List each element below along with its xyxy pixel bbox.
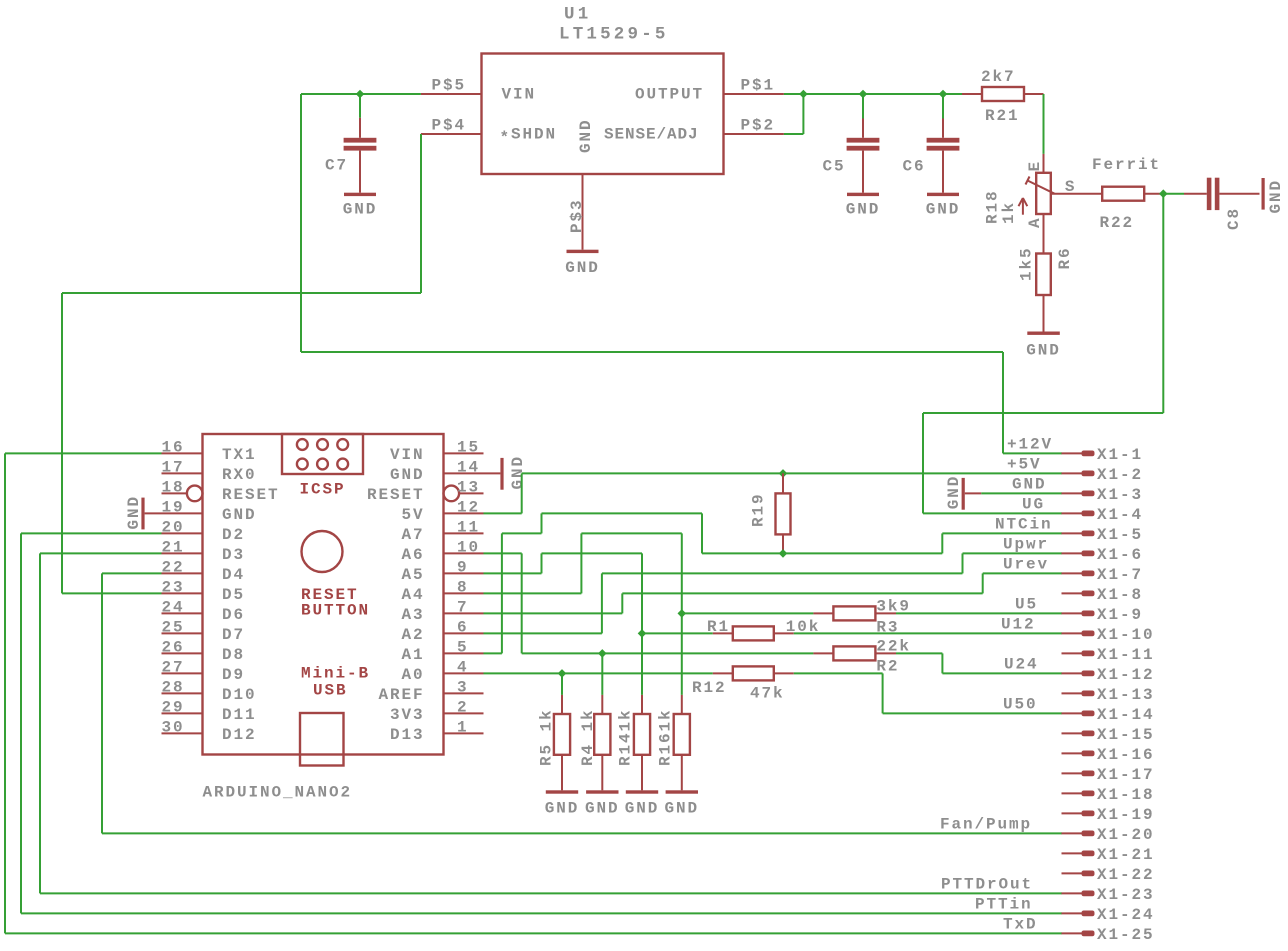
svg-text:A0: A0 — [401, 666, 424, 684]
wire OUTPUT net — [784, 93, 962, 95]
junction R3/R16 — [678, 609, 687, 618]
wire 5V pin jog — [484, 512, 522, 514]
svg-text:D7: D7 — [222, 626, 245, 644]
svg-text:C8: C8 — [1225, 207, 1243, 230]
connector pin X1-9 — [1062, 612, 1082, 614]
svg-text:GND: GND — [222, 506, 257, 524]
svg-text:X1-19: X1-19 — [1097, 806, 1155, 824]
svg-text:ARDUINO_NANO2: ARDUINO_NANO2 — [203, 784, 353, 802]
wire UG horizontal — [923, 412, 1163, 414]
resistor R6 — [1036, 254, 1051, 296]
pin 23 D5 stub — [162, 592, 203, 594]
wire A1 upper run — [542, 512, 703, 514]
svg-text:GND: GND — [565, 259, 600, 277]
R18 adjust arrow — [1022, 199, 1024, 215]
svg-text:A7: A7 — [401, 526, 424, 544]
wire A2 pin segment — [484, 632, 602, 634]
wire A6 drop — [521, 553, 523, 653]
IC U1 LT1529-5 body — [482, 54, 724, 175]
pin 13 RESET stub with bubble — [459, 492, 483, 494]
svg-text:GND: GND — [343, 201, 378, 219]
pin 27 D9 stub — [162, 672, 203, 674]
svg-text:2: 2 — [457, 699, 469, 717]
pin 19 GND stub — [162, 512, 203, 514]
svg-text:A6: A6 — [401, 546, 424, 564]
svg-text:16: 16 — [162, 439, 185, 457]
pin 7 A3 stub — [444, 612, 484, 614]
U1 pin P$3 (GND) stub — [582, 174, 584, 250]
svg-text:A: A — [1026, 216, 1044, 228]
svg-text:R18: R18 — [984, 189, 1002, 224]
wire A4 pin segment — [484, 592, 582, 594]
svg-text:U1: U1 — [564, 5, 591, 25]
svg-text:UG: UG — [1022, 496, 1045, 514]
svg-text:R19: R19 — [750, 492, 768, 527]
pin 28 D10 stub — [162, 692, 203, 694]
ground symbol at pin 14 — [500, 458, 503, 490]
connector pin X1-15 — [1062, 732, 1082, 734]
wire UG to X1-4 — [923, 512, 1062, 514]
svg-text:C5: C5 — [822, 158, 845, 176]
connector pin X1-19 — [1062, 812, 1082, 814]
svg-text:9: 9 — [457, 559, 469, 577]
svg-text:RESET: RESET — [222, 486, 280, 504]
svg-text:X1-20: X1-20 — [1097, 826, 1155, 844]
svg-text:R5 1k: R5 1k — [538, 708, 556, 766]
svg-text:R6: R6 — [1056, 246, 1074, 269]
connector pin X1-1 — [1062, 452, 1082, 454]
pin 17 RX0 stub — [162, 472, 203, 474]
U1 pin P$2 (SENSE) stub — [724, 133, 784, 135]
svg-text:10: 10 — [457, 539, 480, 557]
wire Upwr riser — [962, 553, 964, 573]
svg-text:A2: A2 — [401, 626, 424, 644]
svg-text:GND: GND — [945, 475, 963, 510]
svg-text:1k: 1k — [1000, 201, 1018, 224]
resistor R2 — [813, 652, 833, 654]
connector pin X1-14 — [1062, 712, 1082, 714]
svg-text:GND: GND — [665, 800, 700, 818]
pin 8 A4 stub — [444, 592, 484, 594]
pin 11 A7 stub — [444, 532, 484, 534]
svg-text:17: 17 — [162, 459, 185, 477]
svg-text:X1-24: X1-24 — [1097, 906, 1155, 924]
svg-text:R161k: R161k — [657, 708, 675, 766]
connector pin X1-22 — [1062, 872, 1082, 874]
pin 22 D4 stub — [162, 572, 203, 574]
wire R16 column — [681, 533, 683, 695]
wire A0 pin run — [484, 672, 713, 674]
svg-text:D11: D11 — [222, 706, 257, 724]
wire R2 to jog — [896, 652, 942, 654]
svg-text:19: 19 — [162, 499, 185, 517]
wire A5 riser — [541, 553, 543, 573]
svg-text:D13: D13 — [390, 726, 425, 744]
reset button circle — [302, 531, 343, 572]
svg-text:+12V: +12V — [1007, 436, 1053, 454]
pin 20 D2 stub — [162, 532, 203, 534]
svg-text:X1-5: X1-5 — [1097, 526, 1143, 544]
junction R19 bottom — [779, 549, 788, 558]
resistor R3 — [813, 612, 833, 614]
svg-text:R22: R22 — [1100, 214, 1135, 232]
pin 5 A1 stub — [444, 652, 484, 654]
junction at C6 — [939, 90, 948, 99]
wire PTTin bottom run — [21, 912, 1062, 914]
pin 18 RESET stub with bubble — [162, 492, 187, 494]
wire A3/Urev run — [622, 592, 982, 594]
svg-text:X1-25: X1-25 — [1097, 926, 1155, 944]
ground symbol below R16 — [666, 790, 698, 793]
svg-text:3: 3 — [457, 679, 469, 697]
pin 25 D7 stub — [162, 632, 203, 634]
wire A2/Upwr run — [602, 572, 963, 574]
svg-text:Urev: Urev — [1003, 556, 1049, 574]
connector pin X1-12 — [1062, 672, 1082, 674]
wire A2 riser — [601, 573, 603, 633]
svg-text:X1-6: X1-6 — [1097, 546, 1143, 564]
wire junction to R1 — [642, 632, 713, 634]
connector pin X1-3 — [1062, 492, 1082, 494]
resistor R12 — [713, 672, 733, 674]
svg-text:6: 6 — [457, 619, 469, 637]
svg-text:R141k: R141k — [617, 708, 635, 766]
ground symbol at pin 19 — [141, 498, 144, 530]
svg-text:X1-9: X1-9 — [1097, 606, 1143, 624]
svg-text:A1: A1 — [401, 646, 424, 664]
connector pin X1-2 — [1062, 472, 1082, 474]
resistor R14 (pulldown) — [641, 695, 643, 714]
svg-text:A3: A3 — [401, 606, 424, 624]
U1 pin P$5 (VIN) stub — [421, 93, 482, 95]
pin 29 D11 stub — [162, 712, 203, 714]
pin 10 A6 stub — [444, 552, 484, 554]
svg-text:LT1529-5: LT1529-5 — [559, 25, 669, 45]
wire junction to R3 — [682, 612, 814, 614]
wire FanPump bottom run — [102, 832, 1062, 834]
connector pin X1-17 — [1062, 772, 1082, 774]
svg-text:Ferrit: Ferrit — [1092, 156, 1161, 174]
svg-text:X1-3: X1-3 — [1097, 486, 1143, 504]
svg-text:GND: GND — [577, 118, 595, 153]
connector pin X1-5 — [1062, 532, 1082, 534]
wire Upwr to X1-6 — [963, 552, 1063, 554]
svg-text:Mini-B: Mini-B — [301, 665, 370, 683]
svg-text:Fan/Pump: Fan/Pump — [940, 816, 1032, 834]
svg-text:U5: U5 — [1015, 596, 1038, 614]
svg-text:NTCin: NTCin — [995, 516, 1053, 534]
ICSP pin circles — [297, 439, 308, 450]
svg-text:11: 11 — [457, 519, 480, 537]
svg-text:GND: GND — [125, 495, 143, 530]
svg-text:D5: D5 — [222, 586, 245, 604]
U1 pin P$1 (OUTPUT) stub — [724, 93, 784, 95]
ground symbol below C5 — [847, 193, 879, 196]
svg-text:X1-7: X1-7 — [1097, 566, 1143, 584]
junction R1/R14 — [638, 629, 647, 638]
svg-text:GND: GND — [926, 201, 961, 219]
svg-text:X1-13: X1-13 — [1097, 686, 1155, 704]
svg-text:RESET: RESET — [367, 486, 425, 504]
pin 9 A5 stub — [444, 572, 484, 574]
capacitor C6 — [942, 119, 944, 138]
junction R22/C8/UG — [1159, 189, 1168, 198]
USB connector outline — [300, 713, 344, 766]
svg-text:12: 12 — [457, 499, 480, 517]
svg-text:D8: D8 — [222, 646, 245, 664]
svg-text:R3: R3 — [876, 619, 899, 637]
connector pin X1-13 — [1062, 692, 1082, 694]
wire U12 to X1-10 — [794, 632, 1062, 634]
connector pin X1-10 — [1062, 632, 1082, 634]
svg-text:29: 29 — [162, 699, 185, 717]
svg-text:E: E — [1026, 160, 1044, 172]
svg-text:P$2: P$2 — [741, 116, 776, 134]
wire D5 to SHDN column — [62, 592, 162, 594]
pin 21 D3 stub — [162, 552, 203, 554]
wire SENSE riser — [802, 94, 804, 134]
svg-text:R12: R12 — [692, 679, 727, 697]
wire +12V down to X1-1 — [1002, 352, 1004, 453]
svg-text:GND: GND — [509, 455, 527, 490]
svg-text:X1-12: X1-12 — [1097, 666, 1155, 684]
connector pin X1-24 — [1062, 912, 1082, 914]
wire R14 column — [641, 553, 643, 695]
connector pin X1-7 — [1062, 572, 1082, 574]
ground symbol below R5 — [546, 790, 578, 793]
U1 pin P$4 (SHDN) stub — [421, 133, 482, 135]
wire NTC run — [702, 552, 942, 554]
pin 3 AREF stub — [444, 692, 484, 694]
wire junction to C8 — [1163, 193, 1184, 195]
resistor R4 (pulldown) — [601, 695, 603, 714]
wire D3/PTTDrOut column — [39, 553, 41, 893]
wire A6 pin segment — [484, 552, 522, 554]
resistor R16 (pulldown) — [681, 695, 683, 714]
wire Urev riser — [982, 573, 984, 593]
wire SHDN net down — [420, 134, 422, 293]
svg-text:47k: 47k — [750, 685, 785, 703]
svg-text:7: 7 — [457, 599, 469, 617]
svg-text:1k5: 1k5 — [1018, 246, 1036, 281]
wire C5 lead — [862, 94, 864, 119]
svg-text:GND: GND — [545, 800, 580, 818]
svg-text:R1: R1 — [707, 618, 730, 636]
svg-text:23: 23 — [162, 579, 185, 597]
wire D4 horizontal — [102, 572, 162, 574]
svg-text:A4: A4 — [401, 586, 424, 604]
ICSP header outline — [282, 434, 363, 474]
junction R4 top — [598, 649, 607, 658]
svg-text:U24: U24 — [1004, 656, 1039, 674]
potentiometer R18 body — [1043, 154, 1045, 173]
svg-text:C7: C7 — [325, 157, 348, 175]
wire R4 drop — [601, 653, 603, 695]
wire A1 pin segment — [484, 652, 502, 654]
svg-text:R4 1k: R4 1k — [579, 708, 597, 766]
wire VIN column down-left — [300, 94, 302, 352]
svg-text:GND: GND — [625, 800, 660, 818]
capacitor C5 — [862, 119, 864, 138]
svg-text:D6: D6 — [222, 606, 245, 624]
svg-text:X1-21: X1-21 — [1097, 846, 1155, 864]
wire R5 drop — [561, 673, 563, 695]
svg-text:R21: R21 — [985, 107, 1020, 125]
svg-text:P$5: P$5 — [431, 76, 466, 94]
connector pin X1-25 — [1062, 932, 1082, 934]
svg-text:U50: U50 — [1003, 696, 1038, 714]
pin 2 3V3 stub — [444, 712, 484, 714]
capacitor C8 — [1184, 193, 1207, 195]
wire NTCin riser — [941, 533, 943, 553]
svg-text:VIN: VIN — [390, 446, 425, 464]
svg-text:ICSP: ICSP — [300, 481, 346, 499]
wire A1 riser — [501, 533, 503, 653]
ground symbol right of C8 — [1262, 178, 1265, 210]
svg-text:AREF: AREF — [378, 686, 424, 704]
svg-text:1: 1 — [457, 719, 469, 737]
junction R5 top — [558, 669, 567, 678]
svg-text:22: 22 — [162, 559, 185, 577]
svg-text:3V3: 3V3 — [390, 706, 425, 724]
wire U50 to X1-14 — [883, 712, 1062, 714]
ground symbol at X1-3 — [962, 478, 965, 510]
svg-text:*SHDN: *SHDN — [500, 125, 558, 147]
svg-text:30: 30 — [162, 719, 185, 737]
svg-text:SENSE/ADJ: SENSE/ADJ — [604, 125, 699, 143]
wire VIN net top — [301, 93, 421, 95]
svg-text:15: 15 — [457, 439, 480, 457]
svg-text:27: 27 — [162, 659, 185, 677]
pin 24 D6 stub — [162, 612, 203, 614]
svg-text:GND: GND — [1012, 476, 1047, 494]
wire D4/FanPump column — [101, 573, 103, 833]
svg-text:X1-23: X1-23 — [1097, 886, 1155, 904]
svg-text:BUTTON: BUTTON — [301, 602, 370, 620]
svg-text:PTTDrOut: PTTDrOut — [941, 876, 1033, 894]
wire A3 riser — [621, 593, 623, 613]
wire C6 lead — [942, 94, 944, 119]
wire R21 to R18.E — [1043, 94, 1045, 154]
svg-text:GND: GND — [585, 800, 620, 818]
ground symbol below R4 — [586, 790, 618, 793]
svg-text:TX1: TX1 — [222, 446, 257, 464]
wire 5V riser — [521, 473, 523, 513]
svg-text:X1-8: X1-8 — [1097, 586, 1143, 604]
svg-text:X1-10: X1-10 — [1097, 626, 1155, 644]
svg-text:GND: GND — [1026, 342, 1061, 360]
wire UG down from junction — [1162, 194, 1164, 413]
wire A5 run — [542, 552, 643, 554]
wire U50 drop — [882, 673, 884, 713]
connector pin X1-16 — [1062, 752, 1082, 754]
svg-text:Upwr: Upwr — [1003, 536, 1049, 554]
junction at C7 top — [356, 90, 365, 99]
pin 1 D13 stub — [444, 732, 484, 734]
connector pin X1-11 — [1062, 652, 1082, 654]
svg-text:20: 20 — [162, 519, 185, 537]
svg-text:GND: GND — [1267, 179, 1285, 214]
connector pin X1-20 — [1062, 832, 1082, 834]
wire R18.S to R22 — [1051, 193, 1102, 195]
svg-text:18: 18 — [162, 479, 185, 497]
pin 26 D8 stub — [162, 652, 203, 654]
wire NTC drop — [701, 513, 703, 553]
wire GND to X1-3 — [981, 492, 1062, 494]
R18 wiper arrow diagonal — [1028, 181, 1055, 194]
svg-text:X1-11: X1-11 — [1097, 646, 1155, 664]
svg-text:X1-2: X1-2 — [1097, 466, 1143, 484]
ground symbol below R6 — [1027, 332, 1060, 335]
svg-text:D9: D9 — [222, 666, 245, 684]
svg-text:26: 26 — [162, 639, 185, 657]
svg-text:D10: D10 — [222, 686, 257, 704]
wire A5 pin segment — [484, 572, 542, 574]
connector pin X1-6 — [1062, 552, 1082, 554]
svg-text:GND: GND — [846, 201, 881, 219]
wire A6 lower run to R2 — [522, 652, 814, 654]
svg-text:A5: A5 — [401, 566, 424, 584]
resistor R5 (pulldown) — [561, 695, 563, 714]
svg-text:13: 13 — [457, 479, 480, 497]
svg-text:C6: C6 — [902, 158, 925, 176]
svg-text:P$1: P$1 — [741, 76, 776, 94]
capacitor C7 — [359, 118, 361, 138]
pin 16 TX1 stub — [162, 452, 203, 454]
svg-text:24: 24 — [162, 599, 185, 617]
wire NTCin to X1-5 — [942, 532, 1062, 534]
wire Urev to X1-7 — [983, 572, 1062, 574]
svg-text:VIN: VIN — [502, 86, 537, 104]
connector pin X1-4 — [1062, 512, 1082, 514]
junction OUTPUT/SENSE — [799, 90, 808, 99]
wire R12 to jog — [794, 672, 883, 674]
resistor R21 — [962, 93, 982, 95]
svg-text:GND: GND — [390, 466, 425, 484]
resistor R19 — [782, 473, 784, 493]
wire C7 lead (net part) — [359, 94, 361, 118]
resistor R22 (Ferrit) — [1102, 187, 1144, 201]
svg-text:OUTPUT: OUTPUT — [635, 86, 704, 104]
svg-text:X1-15: X1-15 — [1097, 726, 1155, 744]
svg-text:+5V: +5V — [1007, 456, 1042, 474]
connector pin X1-8 — [1062, 592, 1082, 594]
wire TX1 to TxD horizontal — [5, 452, 162, 454]
resistor R1 — [713, 632, 733, 634]
svg-text:X1-14: X1-14 — [1097, 706, 1155, 724]
svg-text:TxD: TxD — [1003, 916, 1038, 934]
wire TxD bottom run — [5, 932, 1062, 934]
svg-text:25: 25 — [162, 619, 185, 637]
wire A1 jog riser — [541, 513, 543, 533]
svg-text:28: 28 — [162, 679, 185, 697]
ground symbol below R14 — [626, 790, 658, 793]
wire A3 pin segment — [484, 612, 623, 614]
wire TxD left column — [4, 453, 6, 933]
svg-text:P$4: P$4 — [431, 116, 466, 134]
connector pin X1-18 — [1062, 792, 1082, 794]
svg-text:X1-1: X1-1 — [1097, 446, 1143, 464]
svg-text:21: 21 — [162, 539, 185, 557]
svg-text:X1-4: X1-4 — [1097, 506, 1143, 524]
svg-text:2k7: 2k7 — [981, 68, 1016, 86]
junction R19 top — [779, 469, 788, 478]
wire U5 to X1-9 — [896, 612, 1062, 614]
svg-text:D12: D12 — [222, 726, 257, 744]
IC ARDUINO_NANO2 body — [203, 434, 444, 755]
connector pin X1-21 — [1062, 852, 1082, 854]
pin 12 5V stub — [444, 512, 484, 514]
